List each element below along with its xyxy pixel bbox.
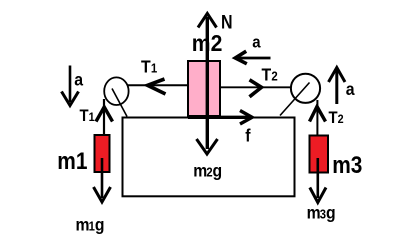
label N <box>221 11 233 33</box>
svg-text:m1: m1 <box>57 148 87 175</box>
svg-text:m1g: m1g <box>76 215 105 235</box>
label m3g <box>307 203 336 223</box>
acceleration a arrow down (left) <box>62 66 79 106</box>
label T1 (top left rope) <box>141 56 157 76</box>
arrowhead m2g down <box>197 139 218 154</box>
block m2 (pink) <box>188 61 220 116</box>
arrowhead T1 up (left rope) <box>96 107 113 122</box>
svg-text:f: f <box>245 126 251 146</box>
friction f arrow <box>188 111 252 125</box>
label a (right) <box>346 79 355 99</box>
label m1 <box>57 148 87 175</box>
svg-text:T1: T1 <box>80 107 96 125</box>
m1g weight arrow <box>94 158 111 202</box>
acceleration a arrow left-pointing (top) <box>235 51 270 64</box>
svg-text:a: a <box>74 69 83 89</box>
arrowhead T2 up (right rope) <box>310 107 326 122</box>
arrowhead T1 left on rope <box>148 79 166 94</box>
label a (top) <box>252 33 260 51</box>
pulley left <box>104 77 128 105</box>
svg-text:T2: T2 <box>262 64 278 84</box>
label a (left) <box>74 69 83 89</box>
label m2 <box>192 30 223 56</box>
N / m2g center vertical line <box>206 17 209 149</box>
svg-text:m3: m3 <box>332 152 362 179</box>
svg-text:N: N <box>221 11 233 33</box>
wire left rope vertical <box>103 99 105 146</box>
wire left rope horizontal T1 <box>124 84 188 86</box>
svg-text:T2: T2 <box>329 109 344 127</box>
acceleration a arrow up (right) <box>329 68 346 105</box>
wire right rope horizontal T2 <box>220 86 293 88</box>
label f <box>245 126 251 146</box>
arrowhead N up <box>198 14 217 28</box>
svg-text:a: a <box>346 79 355 99</box>
svg-text:a: a <box>252 33 260 51</box>
m3g weight arrow <box>310 158 326 203</box>
label m3 <box>332 152 362 179</box>
label m1g <box>76 215 105 235</box>
svg-text:T1: T1 <box>141 56 157 76</box>
pulley right <box>291 74 320 103</box>
block m1 (red) <box>95 135 110 172</box>
label m2g <box>193 161 222 181</box>
table (block M) rectangle <box>123 118 295 197</box>
arrowhead T2 right on rope <box>250 80 262 97</box>
left pulley strut <box>112 89 127 117</box>
block m3 (red) <box>310 136 329 173</box>
svg-text:m3g: m3g <box>307 203 336 223</box>
label T2 (right vertical rope) <box>329 109 344 127</box>
right pulley strut <box>280 83 310 116</box>
svg-text:m2: m2 <box>192 30 223 56</box>
label T1 (left vertical rope) <box>80 107 96 125</box>
label T2 (top right rope) <box>262 64 278 84</box>
wire right rope vertical <box>316 100 318 146</box>
